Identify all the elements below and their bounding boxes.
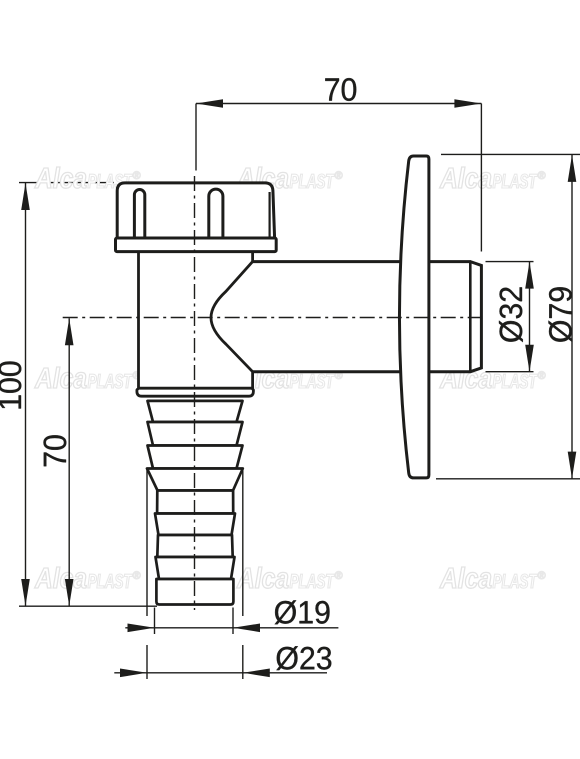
dimension Ø79: [436, 154, 580, 478]
dimension 100 top extension line (under watermark): [19, 182, 114, 184]
wall flange: [399, 156, 428, 478]
body skirt top line: [139, 387, 253, 390]
dimension 100 left: [19, 183, 157, 606]
dimension Ø32: [486, 262, 534, 372]
watermark row 3: [35, 567, 546, 588]
nut slot 2: [209, 189, 223, 238]
nut collar: [116, 238, 277, 252]
barb neck 2: [157, 535, 232, 557]
dimension Ø19: [125, 608, 338, 635]
watermark row 1: [35, 167, 546, 188]
centerline horizontal: [63, 317, 483, 319]
barb cone 5: [155, 514, 235, 536]
barb end cylinder: [156, 579, 233, 605]
barb cone 1: [148, 401, 243, 422]
union nut: [117, 183, 274, 238]
barb cone 6: [156, 557, 235, 579]
dimension 70 left: [68, 318, 70, 606]
outlet pipe: [253, 262, 482, 372]
watermark row 2: [35, 367, 546, 388]
dimension 70 top: [196, 104, 481, 252]
hose barb: [147, 401, 243, 605]
nut inner edge line right: [269, 192, 271, 237]
barb cone 2: [148, 422, 243, 446]
dimension Ø23: [114, 469, 327, 679]
barb cone 3: [148, 446, 243, 469]
nut slot 1: [134, 190, 144, 239]
barb neck 1: [157, 491, 233, 514]
pipe end chamfer line: [469, 262, 472, 372]
barb cone 4: [147, 469, 243, 491]
valve body with junction curve: [137, 251, 254, 397]
centerline vertical: [194, 176, 196, 610]
